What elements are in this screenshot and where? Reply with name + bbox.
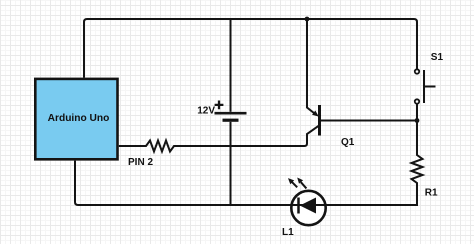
svg-text:Q1: Q1 <box>341 137 355 148</box>
svg-text:S1: S1 <box>431 52 444 63</box>
svg-text:PIN 2: PIN 2 <box>128 157 153 168</box>
svg-text:Arduino Uno: Arduino Uno <box>48 113 110 124</box>
svg-text:12V: 12V <box>197 106 215 117</box>
svg-text:R1: R1 <box>425 187 438 198</box>
svg-text:L1: L1 <box>282 227 294 238</box>
